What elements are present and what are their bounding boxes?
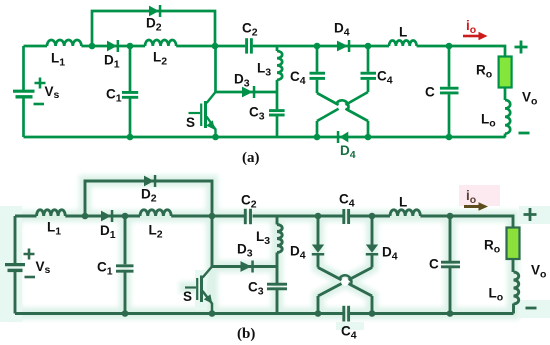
svg-text:C: C (425, 85, 435, 100)
node C top (a) (446, 43, 453, 50)
wire: Lo to bottom rail (504, 134, 507, 137)
wire: D3 horizontal (216, 91, 278, 94)
capacitor C1 plates (122, 38, 459, 115)
wire: L3 to C3 (276, 80, 279, 110)
inductor L2 (145, 40, 176, 46)
wire: crossing diagonal B (317, 92, 368, 121)
wire: C4 left branch (316, 46, 319, 72)
mint glow under circuit (b) (15, 181, 514, 314)
node left leg bottom (b) (315, 310, 322, 317)
wire: bottom rail (24, 136, 506, 139)
wire: crossing legs to rail (316, 121, 319, 137)
plus sign output (a) (515, 41, 530, 134)
node right leg bottom (a) (365, 134, 372, 141)
node collector tap (a) (212, 43, 219, 50)
diode D2 (b) (144, 176, 154, 187)
svg-text:C: C (429, 257, 439, 272)
minus sign output (a) (519, 132, 530, 135)
wire: L3 branch top (276, 46, 279, 51)
wire: (b) main rail L2 to C2 (171, 215, 245, 218)
wire: (b) main rail left (15, 215, 37, 218)
node C4-right top (a) (365, 43, 372, 50)
node emitter (a) (212, 134, 219, 141)
wire: C1 branch (b) (124, 216, 127, 264)
inductor L (389, 41, 417, 46)
capacitor C4 right plates (361, 72, 377, 75)
capacitor C2 plates (b) (244, 209, 247, 224)
node D4-right top (b) (369, 213, 376, 220)
node C4-left top (a) (314, 43, 321, 50)
minus sign source (b) (25, 276, 36, 279)
svg-text:S: S (186, 115, 195, 130)
capacitor C2 plates (245, 38, 248, 53)
node C1 bottom (a) (127, 134, 134, 141)
node D2-branch tap (a) (89, 43, 96, 50)
svg-text:L: L (399, 25, 407, 40)
crossing hop (a) (338, 103, 346, 111)
node C1 top (a) (127, 43, 134, 50)
current arrow io (b) (464, 205, 479, 208)
capacitor C1 plates (b) (116, 209, 460, 322)
plus sign source (a) (34, 78, 46, 105)
diode D1 (b) (101, 175, 378, 273)
diode D1 (107, 5, 350, 143)
junction dots (a) (89, 43, 453, 141)
wire: (b) main rail to output corner (420, 216, 513, 228)
wire: C3 to bottom rail (276, 116, 279, 137)
wire: crossing diagonal A (b) (318, 268, 372, 297)
diode D4 top (337, 41, 348, 52)
wire: C4 right branch (367, 46, 370, 72)
plus sign output (b) (524, 208, 537, 308)
wire: bottom rail (b) left of C4 (15, 312, 343, 315)
wire: top rail C2 to L (253, 45, 389, 48)
node D4-left top (b) (315, 213, 322, 220)
svg-text:(a): (a) (242, 150, 260, 166)
inductor Lo (505, 100, 510, 134)
current label io (b) highlight (459, 185, 500, 206)
wire: top rail L2 to C2 (176, 45, 245, 48)
node right leg bottom (b) (369, 310, 376, 317)
capacitor C4 top plates (b) (342, 209, 345, 224)
resistor Ro (a) (499, 57, 512, 88)
svg-text:L: L (399, 195, 407, 210)
wire: D2 branch (92, 11, 215, 46)
wire: crossing diagonal A (317, 93, 368, 121)
node C top (b) (447, 213, 454, 220)
diode D4 left (b) points down (312, 245, 324, 253)
inductor L2 (b) (140, 210, 171, 216)
capacitor C plates (440, 87, 459, 90)
capacitor C4 left plates (310, 72, 326, 75)
wire: D2 branch (b) (85, 181, 212, 216)
wire: Lo to bottom rail (b) (512, 304, 515, 314)
wire: battery top lead (22, 46, 25, 90)
battery Vs plates (b) (5, 265, 25, 271)
node C bottom (a) (446, 134, 453, 141)
wire: top rail L to output corner (417, 46, 505, 57)
wire: D3 horizontal (b) (212, 265, 277, 268)
wire: L3 to C3 (b) (276, 253, 279, 284)
diode D3 (b) (241, 261, 252, 272)
diode D2 (149, 6, 159, 17)
node C bottom (b) (447, 310, 454, 317)
wire: (b) main rail C4 to L (350, 215, 391, 218)
wire: IGBT collector drop (214, 46, 217, 92)
wire: crossing diagonal B (b) (318, 268, 372, 297)
wire: IGBT collector drop (b) (211, 216, 214, 267)
capacitor C3 plates (269, 109, 285, 112)
transistor S (IGBT) (189, 92, 216, 137)
wire: battery leads (b) (14, 216, 17, 263)
minus sign source (a) (34, 103, 45, 106)
diode D4 right (b) points down (366, 245, 378, 253)
plus sign source (b) (24, 249, 36, 278)
current arrow io (a) (463, 35, 479, 38)
inductor L3 (b) (277, 225, 282, 253)
mint patches circuit (b) (0, 206, 550, 330)
node collector tap (b) (209, 213, 216, 220)
capacitor C4 bottom plates (b) (342, 306, 345, 322)
inductor L1 (47, 40, 81, 46)
wire: crossing legs to rail (b) (317, 296, 320, 314)
wire: C3 to bottom rail (b) (276, 290, 279, 314)
battery Vs plates (13, 91, 35, 97)
wire: L3 branch top (b) (276, 216, 279, 225)
wire: top rail L1 to L2 (81, 45, 145, 48)
wire: bottom rail (b) right of C4 (350, 312, 514, 315)
wire: D4 left branch (b) (317, 216, 320, 245)
svg-text:(b): (b) (237, 326, 255, 342)
wire: C1 branch (129, 46, 132, 91)
crossing hop (b) (341, 278, 349, 286)
diode D4 bottom (points left) (340, 132, 349, 143)
inductor L3 (277, 51, 282, 80)
minus sign output (b) (526, 307, 537, 310)
transistor S emitter arrow (206, 120, 215, 129)
wire: C branch (b) (449, 216, 452, 261)
capacitor C3 plates (b) (267, 283, 287, 286)
inductor Lo (b) (514, 272, 519, 304)
svg-text:S: S (183, 289, 192, 304)
transistor S emitter arrow (b) (204, 294, 212, 303)
node D2-branch tap (b) (82, 213, 89, 220)
wire: (b) main rail C2 to C4 (253, 215, 343, 218)
capacitor C plates (b) (441, 261, 460, 264)
inductor L (b) (390, 210, 420, 216)
wire: Ro to Lo link (504, 88, 507, 101)
wire: Ro to Lo link (b) (512, 259, 515, 272)
wire: D4 right branch (b) (371, 216, 374, 245)
wire: battery bottom lead (22, 98, 25, 138)
node C1 top (b) (122, 213, 129, 220)
inductor L1 (b) (37, 210, 66, 216)
node emitter (b) (209, 310, 216, 317)
node left leg bottom (a) (314, 134, 321, 141)
wire: C branch (448, 46, 451, 87)
wire: main top rail left segment (24, 45, 48, 48)
resistor Ro (b) (507, 228, 520, 260)
transistor S (IGBT) (b) (185, 267, 212, 314)
wire: (b) main rail to L2 (65, 215, 140, 218)
node C1 bottom (b) (122, 310, 129, 317)
diode D3 (242, 87, 253, 98)
junction dots (b) (82, 213, 454, 317)
